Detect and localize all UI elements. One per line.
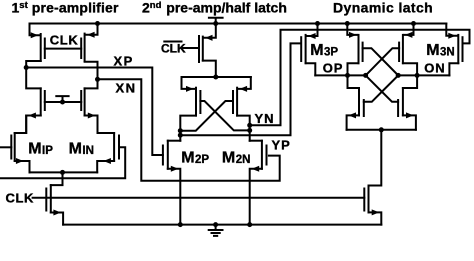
node: YN dot <box>247 123 252 128</box>
wire: stage3 common source rail <box>347 127 416 132</box>
svg-text:XP: XP <box>114 54 134 69</box>
bias: cascode gate tie with T symbol <box>45 96 81 104</box>
transistor M1P: left input NMOS <box>0 116 30 173</box>
transistor: stage3 tail NMOS (CLK) <box>364 130 381 225</box>
node: rail junction M3P inner source <box>345 21 350 26</box>
svg-text:IP: IP <box>42 145 53 157</box>
transistor: stage2 cross-coupled left PMOS <box>180 77 200 141</box>
wire: VDD top rail <box>30 23 447 25</box>
label: CLK input <box>6 191 35 206</box>
label: XP <box>114 54 134 69</box>
svg-text:CLK: CLK <box>50 33 79 48</box>
label: XN <box>116 81 137 96</box>
transistor: stage2 cross-coupled right PMOS <box>233 77 251 141</box>
wire: cross-couple OP to latch right NMOS gate (lower diagonal) <box>366 75 399 101</box>
svg-text:M: M <box>310 42 323 59</box>
node: ON output line <box>396 73 450 78</box>
svg-text:M: M <box>426 42 439 59</box>
svg-text:M: M <box>181 150 194 167</box>
power: VDD symbol <box>209 18 223 26</box>
transistor: stage1 cascode left NMOS <box>26 68 45 134</box>
wire: ground rail <box>63 224 381 226</box>
node: YP dot <box>178 133 183 138</box>
wire: stage2 mid rail <box>182 75 251 80</box>
wire: YP net to M3P outer gate <box>180 43 300 135</box>
svg-text:3P: 3P <box>324 47 338 59</box>
transistor M3N inner PMOS (cross-coupled) <box>399 24 417 89</box>
node: XP junction dot <box>24 65 29 70</box>
svg-text:M: M <box>222 150 235 167</box>
label M1N <box>69 140 94 157</box>
svg-text:3N: 3N <box>440 47 455 59</box>
node: rail junction M3N inner source <box>411 21 416 26</box>
wire: stage2 cross-couple right-gate to left-drain <box>178 101 233 133</box>
node: M2P source at ground <box>178 222 183 227</box>
svg-text:2N: 2N <box>236 154 251 166</box>
transistor: stage2 reset PMOS (CLKbar) <box>183 24 216 78</box>
transistor M2N: input NMOS of stage2 <box>250 141 267 225</box>
transistor: stage1 left precharge PMOS (CLK) <box>26 24 45 66</box>
svg-text:XN: XN <box>116 81 137 96</box>
svg-text:YP: YP <box>272 138 291 153</box>
title: 1st pre-amplifier <box>12 0 119 16</box>
label M3N <box>426 42 455 59</box>
title: Dynamic latch <box>333 0 433 16</box>
label: CLKbar <box>161 41 186 55</box>
svg-text:OP: OP <box>323 60 343 75</box>
label: YN <box>255 111 275 126</box>
title: 2nd pre-amp/half latch <box>142 0 287 16</box>
wire: cross-couple OP to M3N-inner gate (upper diagonal) <box>366 48 400 75</box>
svg-text:CLK: CLK <box>6 191 35 206</box>
svg-text:M: M <box>28 140 41 157</box>
transistor M2P: input NMOS of stage2 <box>163 141 180 225</box>
node: OP output line <box>315 73 368 78</box>
label: ON <box>424 60 445 75</box>
node: M2N source at ground <box>247 222 252 227</box>
wire: CLK net to stage3 tail gate <box>33 197 365 199</box>
svg-text:M: M <box>69 140 82 157</box>
transistor: stage1 cascode right NMOS <box>81 79 97 133</box>
ground symbol <box>209 225 223 236</box>
transistor M1N: right input NMOS <box>0 116 125 179</box>
node: rail junction M3P outer source <box>315 21 320 26</box>
svg-text:Dynamic latch: Dynamic latch <box>333 0 433 16</box>
label M2P <box>181 150 209 167</box>
wire: XP net to M2P gate <box>26 68 163 156</box>
wire: stage1 tail node <box>30 170 98 175</box>
svg-text:IN: IN <box>82 145 94 157</box>
wire: XN net to M2N gate <box>98 79 280 181</box>
wire: cross-couple ON to latch left NMOS gate (lower diagonal) <box>364 75 398 101</box>
svg-text:YN: YN <box>255 111 275 126</box>
wire: cross-couple ON to M3P-inner gate (upper diagonal) <box>363 48 399 75</box>
transistor M3N outer PMOS (gate YN) <box>446 24 462 76</box>
transistor M3P outer PMOS (gate YP) <box>301 24 317 76</box>
transistor: stage1 right precharge PMOS (CLK) <box>81 24 97 79</box>
node: ground symbol junction <box>213 222 218 227</box>
svg-text:1st pre-amplifier: 1st pre-amplifier <box>12 0 119 16</box>
label: YP <box>272 138 291 153</box>
transistor: stage3 latch left NMOS <box>347 88 364 130</box>
node: XN junction dot <box>95 77 100 82</box>
label: CLK stage1 gates <box>50 33 79 48</box>
svg-text:2P: 2P <box>195 154 209 166</box>
label M3P <box>310 42 338 59</box>
node: rail junction right CLK PMOS <box>95 21 100 26</box>
label M2N <box>222 150 251 167</box>
wire: stage2 cross-couple left-gate to right-drain <box>200 101 252 133</box>
transistor: stage1 tail NMOS (CLK) <box>46 172 63 224</box>
wire: stage1 CLK gate-to-gate <box>45 48 81 50</box>
wire: YN net to M3N outer gate <box>250 30 470 126</box>
svg-text:ON: ON <box>424 60 445 75</box>
label: OP <box>323 60 343 75</box>
label M1P <box>28 140 53 157</box>
svg-text:2nd pre-amp/half latch: 2nd pre-amp/half latch <box>142 0 287 16</box>
transistor M3P inner PMOS (cross-coupled) <box>347 24 362 89</box>
transistor: stage3 latch right NMOS <box>398 88 416 130</box>
